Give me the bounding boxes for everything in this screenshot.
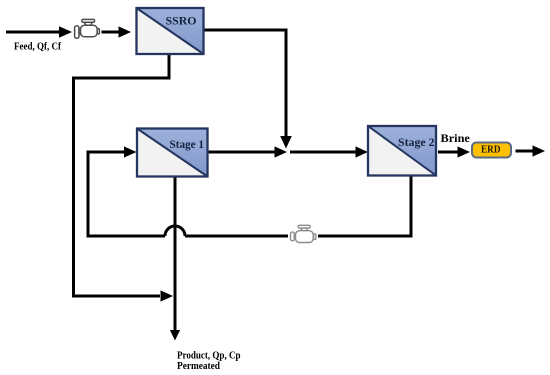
svg-text:Stage 1: Stage 1 <box>170 139 205 151</box>
svg-text:SSRO: SSRO <box>166 15 197 27</box>
svg-text:ERD: ERD <box>481 144 501 155</box>
svg-text:Brine: Brine <box>441 131 471 145</box>
svg-text:Stage 2: Stage 2 <box>398 136 435 149</box>
svg-text:Permeated: Permeated <box>177 360 220 372</box>
svg-text:Feed, Qf, Cf: Feed, Qf, Cf <box>14 42 61 53</box>
